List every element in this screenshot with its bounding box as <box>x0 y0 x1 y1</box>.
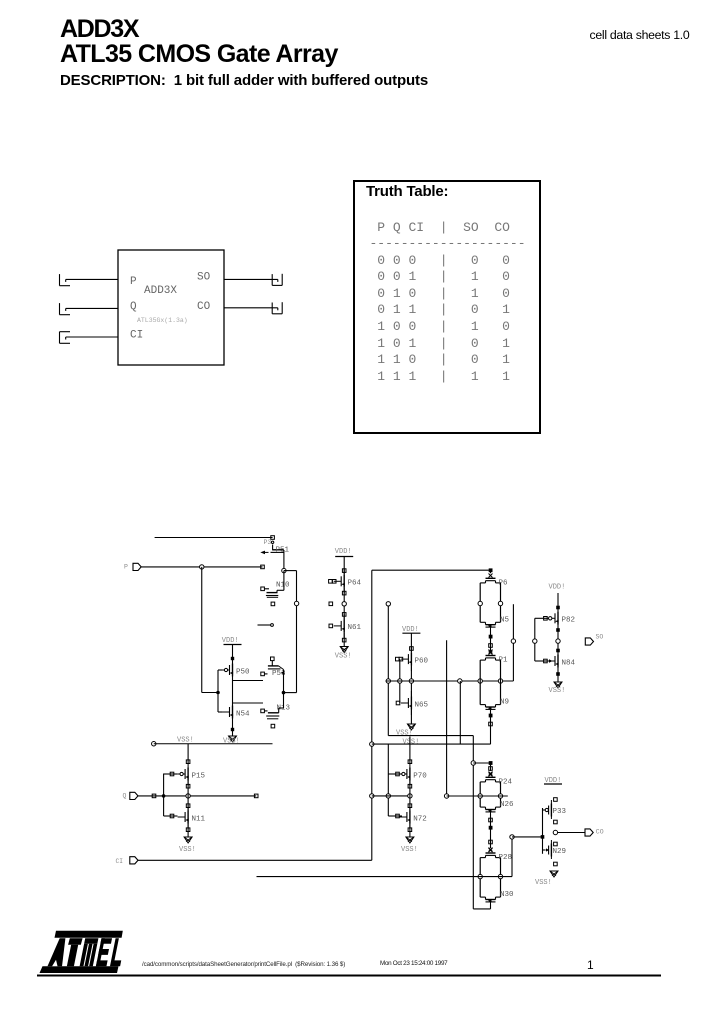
svg-text:SO: SO <box>596 634 604 641</box>
svg-text:VSS!: VSS! <box>403 739 420 747</box>
svg-text:P1: P1 <box>499 657 509 665</box>
svg-text:N54: N54 <box>236 711 250 719</box>
svg-text:CI: CI <box>116 858 124 865</box>
svg-text:ATL35Gx(1.3a): ATL35Gx(1.3a) <box>137 317 188 324</box>
svg-text:VDD!: VDD! <box>222 637 239 645</box>
svg-text:N84: N84 <box>562 660 576 668</box>
svg-text:VSS!: VSS! <box>549 687 566 695</box>
svg-text:VSS!: VSS! <box>335 653 352 661</box>
svg-text:P3: P3 <box>264 539 272 546</box>
svg-text:Q: Q <box>130 301 137 313</box>
svg-text:P70: P70 <box>413 773 427 781</box>
svg-text:VDD!: VDD! <box>549 584 566 592</box>
svg-text:P60: P60 <box>415 658 429 666</box>
svg-text:VDD!: VDD! <box>335 548 352 556</box>
svg-text:N11: N11 <box>192 816 206 824</box>
svg-text:VSS!: VSS! <box>401 846 418 854</box>
svg-text:N26: N26 <box>500 801 514 809</box>
svg-text:N61: N61 <box>348 624 362 632</box>
svg-text:P50: P50 <box>236 669 250 677</box>
svg-text:P33: P33 <box>553 808 567 816</box>
svg-text:Q: Q <box>123 793 127 800</box>
svg-text:N65: N65 <box>415 702 429 710</box>
svg-text:SO: SO <box>197 272 211 284</box>
svg-text:P15: P15 <box>192 773 206 781</box>
svg-text:P: P <box>130 276 137 288</box>
svg-text:VSS!: VSS! <box>177 737 194 745</box>
svg-text:N29: N29 <box>553 848 567 856</box>
svg-text:N30: N30 <box>500 891 514 899</box>
svg-text:CO: CO <box>197 301 211 313</box>
svg-text:N72: N72 <box>413 816 427 824</box>
svg-text:P24: P24 <box>499 778 513 786</box>
svg-text:VSS!: VSS! <box>535 879 552 887</box>
svg-text:ADD3X: ADD3X <box>144 285 177 297</box>
svg-text:P: P <box>124 564 128 571</box>
svg-text:CO: CO <box>596 829 604 836</box>
svg-text:P6: P6 <box>499 579 509 587</box>
svg-text:N10: N10 <box>276 582 290 590</box>
svg-text:VSS!: VSS! <box>179 846 196 854</box>
svg-text:N9: N9 <box>500 699 509 707</box>
svg-text:P51: P51 <box>276 547 290 555</box>
svg-text:CI: CI <box>130 330 143 342</box>
svg-text:P64: P64 <box>348 580 362 588</box>
svg-text:VSS!: VSS! <box>396 730 413 738</box>
svg-text:P28: P28 <box>499 854 513 862</box>
svg-text:N5: N5 <box>500 616 510 624</box>
svg-text:P82: P82 <box>562 617 576 625</box>
